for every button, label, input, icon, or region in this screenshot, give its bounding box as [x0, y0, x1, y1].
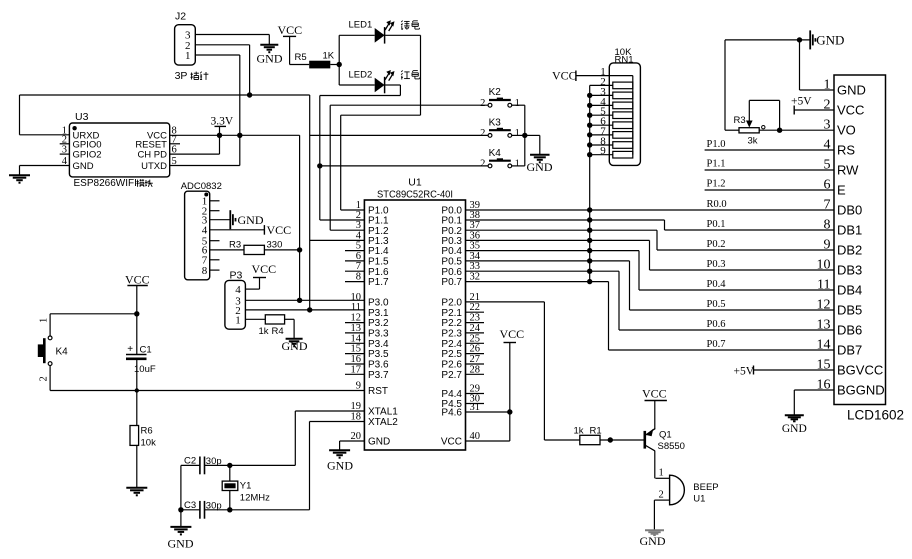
ground J2: [260, 44, 278, 46]
wire P0.2 to DB2: [466, 229, 658, 231]
ground C2C3: [170, 526, 191, 528]
svg-text:2: 2: [659, 489, 664, 500]
svg-text:330: 330: [267, 240, 283, 251]
svg-text:P0.6: P0.6: [707, 319, 726, 330]
node bus-P0 junction: [587, 207, 592, 212]
svg-text:10k: 10k: [141, 438, 157, 449]
svg-text:18: 18: [351, 412, 362, 423]
svg-text:J2: J2: [175, 11, 186, 23]
svg-text:K2: K2: [489, 87, 502, 98]
node RN1 bus junction: [587, 93, 592, 98]
potentiometer R3 3k: [724, 40, 726, 130]
svg-text:DB6: DB6: [837, 323, 862, 338]
svg-text:P3.7: P3.7: [368, 370, 389, 381]
svg-text:XTAL1: XTAL1: [368, 407, 398, 418]
svg-text:P0.6: P0.6: [441, 267, 462, 278]
svg-text:9: 9: [356, 381, 361, 392]
svg-text:BGGND: BGGND: [837, 383, 885, 398]
svg-text:14: 14: [817, 338, 831, 353]
node bus-P0 junction: [587, 217, 592, 222]
svg-text:1: 1: [39, 318, 50, 323]
wire P0.4 to DB4: [466, 250, 640, 252]
U1 stub P4.4: [466, 393, 485, 395]
node LED2/K4 junction: [317, 163, 322, 168]
svg-text:1: 1: [515, 98, 520, 109]
LED LED1: [375, 28, 385, 43]
U3 pin3 stub: [60, 153, 70, 155]
wire U3 pin8 VCC to 3.3V rail: [170, 134, 300, 136]
svg-text:VO: VO: [837, 123, 856, 138]
node J2 pin1 3.3V junction: [237, 133, 242, 138]
svg-text:40: 40: [470, 431, 481, 442]
pushbutton K2: [488, 103, 492, 107]
svg-text:DB4: DB4: [837, 283, 862, 298]
svg-text:R0.0: R0.0: [707, 199, 727, 210]
wire K4 left from LED2 net: [320, 165, 488, 167]
node bus-P0 junction: [587, 258, 592, 263]
svg-text:C3: C3: [184, 500, 196, 511]
svg-text:P3.5: P3.5: [368, 349, 389, 360]
svg-text:12MHz: 12MHz: [240, 493, 270, 504]
svg-text:3k: 3k: [748, 136, 758, 147]
wire XTAL1: [295, 410, 364, 412]
svg-text:VCC: VCC: [837, 103, 864, 118]
svg-text:15: 15: [351, 344, 362, 355]
wire LED2 anode: [339, 84, 375, 86]
U1 stub: [466, 342, 485, 344]
svg-text:10: 10: [817, 258, 831, 273]
capacitor C3 30p: [199, 501, 201, 519]
node wiper junction: [777, 128, 782, 133]
svg-text:R6: R6: [141, 426, 153, 437]
node RN1 bus junction: [587, 113, 592, 118]
resistor element RN1: [590, 154, 613, 156]
svg-text:GND: GND: [837, 83, 866, 98]
svg-text:1K: 1K: [323, 51, 335, 62]
svg-text:DB0: DB0: [837, 203, 862, 218]
wire U1 VCC pin40 and P4.6: [466, 411, 510, 413]
svg-text:9: 9: [824, 238, 831, 253]
wire URXD up-left loop: [19, 95, 21, 135]
ground U3: [9, 174, 30, 176]
svg-text:+5V: +5V: [791, 96, 812, 108]
pushbutton K4: [488, 164, 492, 168]
resistor element RN1: [590, 94, 613, 96]
svg-text:ESP8266WIFI: ESP8266WIFI: [74, 178, 137, 189]
crystal Y1 12MHz: [227, 463, 232, 468]
svg-text:RS: RS: [837, 143, 855, 158]
wire LED1 anode: [339, 34, 375, 36]
svg-text:1: 1: [185, 50, 191, 62]
svg-text:+: +: [127, 344, 133, 355]
svg-text:S8550: S8550: [658, 441, 685, 452]
svg-text:28: 28: [470, 364, 481, 375]
U1 stub: [345, 250, 364, 252]
wire P3 pin4 to VCC: [245, 288, 259, 290]
ground R6: [126, 487, 147, 489]
transistor Q1 S8550: [643, 431, 646, 449]
wire keys common right bus: [512, 104, 525, 106]
wire C2C3 ground rail: [180, 465, 182, 527]
U1 stub: [345, 373, 364, 375]
wire 3.3V rail down: [299, 135, 301, 300]
wire to keys ground: [525, 134, 540, 136]
node bus-P0 junction: [587, 238, 592, 243]
ground beeper: [645, 529, 664, 531]
wire P0.0 to DB0: [466, 209, 835, 211]
resistor element RN1: [590, 124, 613, 126]
svg-text:3P: 3P: [175, 70, 188, 82]
svg-text:C1: C1: [140, 345, 152, 356]
svg-text:UTXD: UTXD: [141, 161, 167, 172]
svg-text:17: 17: [351, 364, 362, 375]
ADC pin8 stub: [210, 269, 220, 271]
U3 pin7 stub: [170, 143, 180, 145]
svg-text:30p: 30p: [206, 456, 222, 467]
LCD module LCD1602: [834, 75, 886, 405]
capacitor C1 10uF: [136, 314, 138, 355]
svg-text:P0.7: P0.7: [441, 277, 462, 288]
svg-text:P2.1: P2.1: [441, 308, 462, 319]
wire RW net P1.1: [705, 169, 834, 171]
svg-text:LCD1602: LCD1602: [847, 408, 904, 423]
U3 pin2 stub: [60, 143, 70, 145]
node bus-P0 junction: [587, 228, 592, 233]
svg-text:1k: 1k: [259, 326, 269, 337]
svg-text:DB2: DB2: [837, 243, 862, 258]
svg-text:20: 20: [351, 431, 362, 442]
svg-text:8: 8: [202, 265, 208, 277]
svg-text:GND: GND: [782, 423, 807, 435]
svg-text:P0.5: P0.5: [707, 299, 726, 310]
U1 stub: [345, 342, 364, 344]
node RST-C1 junction: [135, 388, 139, 392]
svg-text:K4: K4: [489, 148, 502, 159]
svg-text:DB5: DB5: [837, 303, 862, 318]
svg-text:P1.6: P1.6: [368, 267, 389, 278]
ground LCD top sideways: [809, 30, 811, 49]
svg-text:1: 1: [515, 159, 520, 170]
wire K2 left to P1.2: [330, 104, 488, 106]
svg-text:U1: U1: [408, 177, 422, 189]
U1 stub: [466, 373, 485, 375]
svg-text:P2.7: P2.7: [441, 370, 462, 381]
wire P3 pin3 to P3.0: [245, 299, 364, 301]
wire J2 pin3 to GND: [195, 34, 269, 36]
resistor R4 1k: [245, 318, 265, 320]
svg-text:BEEP: BEEP: [693, 482, 718, 493]
svg-text:P0.3: P0.3: [707, 259, 726, 270]
svg-text:P0.1: P0.1: [707, 219, 726, 230]
ADC pin5 stub: [210, 240, 220, 242]
svg-text:GND: GND: [816, 33, 844, 48]
node gnd junction: [797, 37, 802, 42]
wire P2.0 to R1: [466, 301, 545, 303]
ground keys: [530, 154, 550, 156]
svg-text:CH PD: CH PD: [137, 150, 167, 161]
svg-text:E: E: [837, 183, 846, 198]
svg-text:LED2: LED2: [349, 69, 373, 80]
wire RST line: [50, 390, 364, 392]
wire U1 GND pin20: [340, 440, 365, 442]
svg-text:VCC: VCC: [267, 223, 292, 237]
U1 stub: [345, 260, 364, 262]
svg-text:STC89C52RC-40I: STC89C52RC-40I: [377, 189, 453, 201]
svg-text:32: 32: [470, 272, 481, 283]
svg-text:P1.7: P1.7: [368, 277, 389, 288]
svg-text:DB3: DB3: [837, 263, 862, 278]
svg-text:4: 4: [235, 284, 241, 296]
ground U1: [329, 449, 350, 451]
svg-text:GND: GND: [257, 52, 283, 66]
svg-text:GND: GND: [327, 459, 353, 473]
wire P0.5 to DB5: [466, 260, 630, 262]
ADC pin7 stub: [210, 259, 220, 261]
svg-text:2: 2: [480, 128, 485, 139]
svg-text:GND: GND: [282, 339, 308, 353]
svg-text:1: 1: [515, 128, 520, 139]
svg-text:8: 8: [356, 272, 361, 283]
svg-text:R3: R3: [734, 115, 746, 126]
wire LCD pin16 BGGND: [794, 389, 834, 391]
wire J2 pin2 to URXD net: [195, 44, 249, 46]
U1 stub P4.5: [466, 403, 485, 405]
node URXD-J2 junction: [247, 92, 252, 97]
wire URXD vertical to P1.3/P3.1: [309, 95, 311, 310]
wire K3 left to URXD net: [310, 134, 488, 136]
wire LCD pin3 VO: [759, 129, 834, 131]
ground R4: [286, 338, 303, 340]
ADC pin2 stub: [210, 210, 220, 212]
node RN1 bus junction: [587, 103, 592, 108]
svg-text:DB1: DB1: [837, 223, 862, 238]
svg-text:P1.1: P1.1: [707, 159, 726, 170]
wire P0.1 to DB1: [466, 219, 665, 221]
buzzer BEEP U1: [655, 477, 669, 479]
svg-text:33: 33: [470, 261, 481, 272]
svg-text:VCC: VCC: [278, 23, 303, 37]
U1 stub: [466, 363, 485, 365]
resistor network RN1 10K: [609, 63, 640, 165]
svg-text:P3.1: P3.1: [368, 308, 389, 319]
node R1-base junction: [608, 437, 613, 442]
node C3 gnd junction: [178, 507, 183, 512]
svg-text:GND: GND: [527, 160, 553, 174]
ADC pin1 stub: [210, 200, 220, 202]
node 3.3V junction: [217, 133, 222, 138]
capacitor C2 30p: [199, 457, 201, 475]
svg-text:XTAL2: XTAL2: [368, 417, 398, 428]
svg-text:30p: 30p: [206, 501, 222, 512]
label green CJK: [401, 21, 410, 30]
svg-text:GND: GND: [238, 213, 264, 227]
svg-text:7: 7: [356, 261, 361, 272]
svg-text:2: 2: [480, 159, 485, 170]
svg-text:12: 12: [817, 298, 831, 313]
label red CJK: [401, 70, 410, 79]
wire RS net P1.0: [705, 149, 834, 151]
svg-text:U3: U3: [75, 111, 89, 123]
svg-text:C2: C2: [184, 456, 196, 467]
U1 stub: [466, 322, 485, 324]
node URXD-P3.1 junction: [307, 307, 312, 312]
IC ADC0832: [185, 191, 210, 280]
node keys GND junction: [522, 133, 527, 138]
node RN1 bus junction: [587, 152, 592, 157]
svg-text:RN1: RN1: [615, 55, 634, 66]
svg-text:8: 8: [824, 218, 831, 233]
svg-text:GND: GND: [640, 534, 666, 548]
svg-text:P0.2: P0.2: [707, 239, 726, 250]
U1 stub: [466, 311, 485, 313]
node R5-LED junction: [337, 62, 342, 67]
U1 stub: [466, 332, 485, 334]
svg-text:LED1: LED1: [349, 20, 373, 31]
U1 stub: [345, 363, 364, 365]
svg-text:7: 7: [824, 198, 831, 213]
ESP8266 module U3: [69, 123, 169, 177]
wire P0.6 to DB6: [466, 270, 620, 272]
svg-text:22: 22: [470, 302, 481, 313]
svg-text:1k: 1k: [574, 426, 584, 437]
svg-text:P1.0: P1.0: [707, 139, 726, 150]
svg-text:R5: R5: [295, 52, 307, 63]
wire LED2 cathode to P1.1: [385, 84, 401, 86]
svg-text:DB7: DB7: [837, 343, 862, 358]
svg-text:24: 24: [470, 323, 481, 334]
svg-text:VCC: VCC: [500, 327, 525, 341]
svg-text:VCC: VCC: [642, 387, 667, 401]
svg-text:VCC: VCC: [552, 69, 577, 83]
MCU U1 STC89C52RC-40I: [364, 200, 465, 450]
svg-text:VCC: VCC: [441, 437, 462, 448]
RN1 bus vertical: [589, 85, 591, 281]
wire U3 pin6 CH_PD: [170, 153, 220, 155]
node VCC-K4-C1 junction: [134, 311, 139, 316]
svg-text:VCC: VCC: [252, 262, 277, 276]
svg-text:13: 13: [351, 323, 362, 334]
U1 stub: [345, 281, 364, 283]
svg-text:3.3V: 3.3V: [211, 116, 234, 128]
resistor element RN1: [590, 84, 613, 86]
svg-text:1: 1: [235, 314, 241, 326]
pushbutton K3: [488, 134, 492, 138]
svg-text:VCC: VCC: [125, 273, 150, 287]
svg-text:RW: RW: [837, 163, 859, 178]
wire LCD pin2 VCC +5V: [794, 109, 834, 111]
node bus-P0 junction: [587, 248, 592, 253]
wire ADC pin3 to GND: [210, 219, 230, 221]
node RN1 bus junction: [587, 123, 592, 128]
svg-text:K4: K4: [56, 347, 69, 358]
ground LCD bottom: [785, 414, 804, 416]
svg-text:U1: U1: [693, 494, 705, 505]
wire P3 pin2 to P3.1: [245, 309, 364, 311]
U1 stub: [345, 270, 364, 272]
resistor element RN1: [590, 114, 613, 116]
svg-text:+5V: +5V: [734, 366, 755, 378]
ground ADC sideways: [229, 210, 231, 229]
svg-text:P4.6: P4.6: [441, 408, 462, 419]
svg-text:P0.4: P0.4: [707, 279, 727, 290]
svg-text:13: 13: [817, 318, 831, 333]
resistor element RN1: [590, 144, 613, 146]
svg-text:P2.5: P2.5: [441, 349, 462, 360]
svg-text:R4: R4: [272, 326, 284, 337]
svg-text:GND: GND: [73, 161, 94, 172]
resistor R5 1K: [290, 64, 310, 66]
svg-text:ADC0832: ADC0832: [181, 181, 222, 192]
node bus-P0 junction: [587, 279, 592, 284]
svg-text:R3: R3: [229, 240, 241, 251]
wire beeper to ground: [653, 500, 655, 530]
svg-text:P1.2: P1.2: [707, 179, 726, 190]
svg-text:GND: GND: [168, 537, 194, 551]
svg-text:Q1: Q1: [659, 430, 672, 441]
svg-text:9: 9: [600, 145, 606, 157]
svg-text:Y1: Y1: [240, 481, 252, 492]
svg-text:19: 19: [351, 401, 362, 412]
wire P0.3 to DB3: [466, 239, 650, 241]
svg-text:11: 11: [351, 302, 361, 313]
svg-text:GND: GND: [368, 437, 390, 448]
wire gnd rail top: [725, 39, 810, 41]
wire U3 pin5 UTXD: [170, 165, 240, 167]
U1 stub: [466, 353, 485, 355]
node bus-P0 junction: [587, 269, 592, 274]
LED LED2: [375, 78, 385, 93]
resistor element RN1: [590, 134, 613, 136]
U1 stub: [345, 322, 364, 324]
svg-text:P0.7: P0.7: [707, 339, 726, 350]
U1 stub: [345, 332, 364, 334]
wire E net P1.2: [705, 189, 834, 191]
wire U3 pin1 URXD: [20, 134, 70, 136]
node RN1 bus junction: [587, 132, 592, 137]
node R3 junction: [297, 247, 302, 252]
svg-text:K3: K3: [489, 117, 502, 128]
connector P3: [225, 280, 246, 329]
resistor R3 330: [210, 249, 244, 251]
wire U3 pin4 GND: [20, 165, 70, 167]
connector J2: [175, 25, 196, 65]
wire ADC pin4 to VCC: [210, 229, 265, 231]
node rail-P3.0 junction: [297, 298, 302, 303]
node RN1 bus junction: [587, 142, 592, 147]
wire LED1 cathode to P1.0: [385, 34, 421, 36]
wire XTAL2: [310, 421, 365, 423]
resistor R1 1k: [580, 435, 600, 444]
wire LCD pin1 GND: [800, 89, 835, 91]
RN1 common vertical: [632, 76, 634, 155]
resistor element RN1: [590, 104, 613, 106]
svg-text:1: 1: [659, 468, 664, 479]
pushbutton K4 reset: [49, 314, 51, 336]
wire P0.7 to DB7: [466, 281, 609, 283]
svg-text:P3: P3: [230, 269, 243, 281]
svg-text:P3.3: P3.3: [368, 329, 389, 340]
wire J2 pin1 to 3.3V net: [195, 54, 240, 56]
svg-text:P2.3: P2.3: [441, 329, 462, 340]
svg-text:GPIO2: GPIO2: [73, 150, 102, 161]
resistor R6 10k: [130, 426, 139, 446]
svg-text:11: 11: [817, 278, 830, 293]
svg-text:BGVCC: BGVCC: [837, 363, 883, 378]
wire LCD pin15 BGVCC +5V: [754, 369, 835, 371]
svg-text:2: 2: [480, 98, 485, 109]
svg-text:26: 26: [470, 344, 481, 355]
svg-text:R1: R1: [590, 426, 602, 437]
